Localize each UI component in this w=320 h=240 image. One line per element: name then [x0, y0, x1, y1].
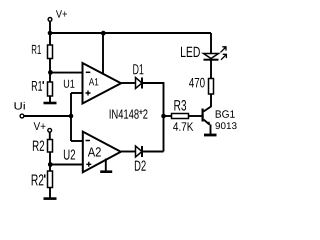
- node R3 junction: [161, 114, 166, 119]
- label 470: [189, 78, 205, 88]
- wire V+ to R2: [49, 133, 51, 140]
- wire to A1 non-inverting input: [71, 92, 83, 94]
- wire V+ stem to R1: [49, 22, 51, 45]
- label A1: [89, 78, 99, 85]
- wire R2' to ground: [49, 188, 51, 198]
- op-amp U1 (A1): [83, 63, 122, 104]
- wire A1 output: [121, 82, 136, 84]
- node Ui junction: [69, 114, 74, 119]
- node R1/R1' junction: [48, 70, 53, 75]
- terminal V+ (bottom): [48, 128, 52, 132]
- label R2': [32, 174, 46, 185]
- wire R1' to ground: [49, 96, 51, 102]
- label LED: [181, 47, 200, 57]
- wire junction to A1 inverting input: [50, 72, 83, 74]
- label R1: [32, 45, 41, 54]
- resistor R2: [48, 140, 53, 153]
- op-amp A2 minus sign: [86, 140, 91, 142]
- wire A2 output: [121, 151, 136, 153]
- wire junction to A2 non-inverting input: [50, 164, 83, 166]
- label V+ (bottom): [34, 122, 46, 130]
- wire R2 to junction to R2': [49, 152, 51, 172]
- diode D1: [136, 78, 143, 89]
- label BG1: [216, 110, 235, 118]
- label IN4148*2: [110, 109, 148, 118]
- label R3: [174, 100, 186, 111]
- wire Ui junction vertical branch: [70, 93, 72, 141]
- op-amp A1 minus sign: [86, 71, 91, 73]
- label R1': [32, 81, 44, 91]
- label U2: [64, 150, 75, 160]
- label V+ (top): [56, 10, 67, 17]
- label D1: [133, 64, 143, 74]
- node A1 supply junction: [101, 31, 106, 36]
- op-amp A2 plus sign: [86, 162, 91, 167]
- transistor emitter: [204, 120, 210, 125]
- label 9013: [215, 122, 236, 129]
- label R2: [33, 141, 44, 151]
- wire LED to resistor 470: [210, 61, 212, 80]
- wire Ui to junction: [24, 115, 71, 117]
- wire top rail: [50, 32, 211, 34]
- label 4.7K: [173, 122, 193, 130]
- wire D2 to right vertical: [142, 151, 164, 153]
- diode D2: [136, 146, 143, 157]
- label D2: [135, 161, 146, 171]
- label Ui: [15, 102, 25, 110]
- resistor R1: [48, 45, 53, 59]
- node R2/R2' junction: [48, 162, 53, 167]
- wire R1 to junction to R1': [49, 59, 51, 83]
- resistor 470: [209, 79, 214, 95]
- LED arrows: [221, 46, 227, 59]
- op-amp A1 plus sign: [86, 91, 91, 96]
- node top-left junction: [48, 31, 53, 36]
- transistor Q BG1 base bar: [202, 109, 204, 122]
- ground (R2'): [44, 197, 57, 200]
- terminal V+ (top): [48, 18, 52, 22]
- label A2: [88, 147, 101, 156]
- ground (R1'): [44, 102, 57, 105]
- wire A1 V+ pin: [102, 33, 104, 74]
- wire to A2 inverting input: [71, 140, 83, 142]
- label U1: [64, 80, 75, 88]
- resistor R2': [48, 171, 53, 188]
- op-amp U2 (A2): [83, 132, 121, 173]
- LED diode: [204, 54, 219, 59]
- ground (emitter): [204, 134, 217, 137]
- ground (A2): [105, 159, 107, 172]
- terminal Ui: [20, 114, 24, 118]
- wire D1 to right vertical: [142, 83, 164, 152]
- wire top rail to LED: [210, 33, 212, 53]
- resistor R3: [164, 115, 172, 117]
- resistor R1': [48, 82, 53, 96]
- wire 470 to collector: [204, 94, 212, 112]
